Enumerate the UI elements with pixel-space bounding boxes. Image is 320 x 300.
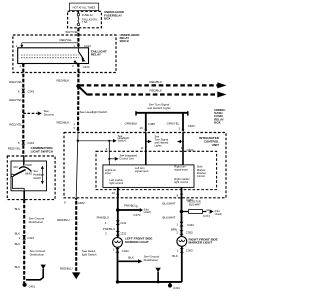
svg-text:RED/BLK: RED/BLK — [150, 80, 162, 84]
svg-text:FUSE 42: FUSE 42 — [82, 13, 93, 17]
svg-text:RED/BLK: RED/BLK — [150, 89, 162, 93]
wire ground distribution branch — [41, 265, 46, 269]
svg-text:C305: C305 — [186, 248, 193, 252]
lamp left front side marker — [113, 238, 123, 248]
svg-text:light control: light control — [174, 180, 188, 184]
svg-text:WHT/YEL: WHT/YEL — [65, 30, 78, 34]
wire right marker output — [181, 187, 183, 236]
resistor R1 — [189, 210, 203, 214]
under-hood fuse/relay box — [68, 11, 102, 28]
svg-text:Used): Used) — [215, 212, 222, 216]
svg-text:Security: Security — [44, 112, 55, 116]
svg-text:C483: C483 — [188, 124, 195, 128]
svg-text:C482: C482 — [78, 201, 85, 205]
node HOT AT ALL TIMES — [69, 3, 98, 11]
svg-text:LIGHT SWITCH: LIGHT SWITCH — [31, 150, 54, 154]
svg-text:GRN/BLK: GRN/BLK — [125, 121, 138, 125]
ground G401 — [23, 283, 27, 287]
wire RED/BLK down to ICU — [77, 86, 80, 130]
svg-text:Distribution: Distribution — [144, 258, 159, 262]
svg-text:MARKER LIGHT: MARKER LIGHT — [125, 240, 149, 244]
svg-text:C343: C343 — [27, 90, 34, 94]
node junction — [76, 84, 80, 88]
svg-text:light control: light control — [110, 181, 124, 185]
svg-text:C470: C470 — [133, 213, 140, 217]
svg-text:BLK: BLK — [15, 265, 21, 269]
wire left marker output — [117, 187, 119, 237]
svg-text:See Headlight Switch,: See Headlight Switch, — [80, 110, 108, 114]
svg-text:Switch: Switch — [33, 176, 41, 180]
svg-text:C322: C322 — [122, 249, 129, 253]
svg-text:MARKER LIGHT: MARKER LIGHT — [189, 241, 213, 245]
svg-text:UNIT: UNIT — [212, 143, 219, 147]
wire dashed bus upper to under-dash — [80, 84, 218, 86]
svg-text:Switch,: Switch, — [118, 139, 127, 143]
svg-text:Distribution: Distribution — [30, 252, 45, 256]
wire RED/YEL left column — [22, 64, 24, 157]
svg-text:Circuit: Circuit — [197, 174, 205, 178]
svg-text:PNK/BLU: PNK/BLU — [124, 204, 136, 208]
svg-text:BLU/WHT: BLU/WHT — [189, 203, 201, 207]
wire relay jumper pin1 to pin2 — [22, 43, 79, 48]
logic box — [103, 165, 194, 188]
fuse F42 — [77, 13, 97, 25]
svg-text:and Hazard Lights: and Hazard Lights — [147, 106, 171, 110]
wire fuse to relay pin1 WHT/YEL — [77, 28, 79, 48]
lamp right front side marker — [177, 237, 187, 247]
svg-text:G401: G401 — [29, 285, 36, 289]
svg-text:Headlight: Headlight — [33, 173, 44, 177]
wire BLK right marker ground — [181, 246, 183, 282]
svg-text:C486: C486 — [148, 122, 155, 126]
wire see security branch — [23, 112, 37, 114]
side marker flasher circuit box — [96, 151, 217, 189]
svg-text:PNK/BLU: PNK/BLU — [97, 215, 109, 219]
svg-text:input: input — [105, 171, 111, 175]
svg-text:HOT AT ALL TIMES: HOT AT ALL TIMES — [73, 5, 96, 9]
wire ground distribution incoming — [155, 268, 160, 272]
svg-text:RED/YEL: RED/YEL — [9, 98, 22, 102]
svg-text:RED/BLK: RED/BLK — [57, 120, 70, 124]
svg-text:C473: C473 — [203, 214, 210, 218]
wire switch output — [12, 177, 24, 191]
svg-text:BLU/WHT: BLU/WHT — [163, 202, 176, 206]
wire BLK left marker ground — [117, 247, 119, 282]
svg-text:See: See — [33, 169, 38, 173]
svg-text:Control Unit: Control Unit — [119, 156, 133, 160]
svg-text:RED/YEL: RED/YEL — [60, 38, 73, 42]
svg-text:C222: C222 — [83, 65, 90, 69]
svg-text:RELAY: RELAY — [91, 53, 102, 57]
svg-text:BLK: BLK — [15, 207, 21, 211]
relay contact — [77, 48, 79, 52]
svg-text:G301: G301 — [173, 286, 180, 290]
svg-text:BOX: BOX — [104, 16, 110, 20]
wire GRN/YEL C483 — [182, 113, 184, 130]
wire left turn inside ICU — [145, 132, 147, 165]
integrated control unit U2 — [64, 133, 226, 198]
wire right turn inside ICU — [182, 132, 184, 165]
svg-text:11: 11 — [140, 146, 143, 150]
svg-text:OFF: OFF — [13, 166, 18, 169]
svg-text:BLU/WHT: BLU/WHT — [163, 215, 176, 219]
svg-text:RED/YEL: RED/YEL — [9, 122, 22, 126]
svg-text:C305: C305 — [186, 231, 193, 235]
svg-text:PARK: PARK — [26, 164, 33, 167]
wire see headlight switch output C482 — [75, 201, 77, 273]
svg-text:signal input: signal input — [135, 169, 149, 173]
svg-text:BLK: BLK — [172, 254, 178, 258]
taillight relay U1 — [18, 48, 89, 64]
wire lights-on inside ICU — [76, 132, 78, 198]
node right not used branch — [180, 210, 184, 214]
svg-text:BLK: BLK — [15, 242, 21, 246]
svg-text:10: 10 — [206, 208, 210, 212]
wire GRN/BLK C486 — [145, 113, 147, 130]
svg-text:BOX: BOX — [214, 120, 220, 124]
svg-text:7.5A: 7.5A — [82, 20, 88, 24]
wire ground bus bottom — [118, 281, 182, 283]
svg-text:C416: C416 — [27, 236, 34, 240]
under-hood relay box B — [13, 35, 116, 73]
svg-text:Lights: Lights — [154, 143, 162, 147]
svg-text:BOX B: BOX B — [120, 39, 129, 43]
svg-text:RED/YEL: RED/YEL — [8, 147, 21, 151]
svg-text:10: 10 — [139, 126, 143, 130]
ground G301 — [169, 282, 171, 285]
svg-text:BLK: BLK — [128, 256, 134, 260]
svg-text:RED/BLU: RED/BLU — [60, 267, 73, 271]
svg-text:RED/BLK: RED/BLK — [57, 78, 70, 82]
svg-text:GRN/YEL: GRN/YEL — [167, 122, 180, 126]
switch lever — [23, 156, 25, 166]
wire fuse feed — [77, 11, 79, 14]
wire BLK ground left — [23, 191, 25, 200]
svg-text:C141: C141 — [120, 221, 127, 225]
svg-text:Used): Used) — [144, 210, 151, 214]
svg-text:BLK: BLK — [15, 232, 21, 236]
svg-text:10: 10 — [112, 191, 116, 195]
wire to flasher pin2 — [108, 141, 110, 165]
node left not used branch — [116, 208, 120, 212]
svg-text:RED/YEL: RED/YEL — [9, 80, 22, 84]
svg-text:light Switch: light Switch — [82, 252, 97, 256]
svg-text:HEAD: HEAD — [25, 173, 32, 176]
svg-text:PNK/BLU: PNK/BLU — [103, 227, 115, 231]
wire dashed bus lower to under-dash — [79, 86, 91, 94]
svg-text:C322: C322 — [120, 232, 127, 236]
svg-text:C416: C416 — [27, 141, 34, 145]
svg-text:signal input: signal input — [174, 168, 188, 172]
svg-text:RED/BLU: RED/BLU — [57, 218, 70, 222]
relay coil — [21, 54, 79, 56]
wire RED/BLK from relay pin3 — [77, 64, 79, 87]
svg-text:Distribution: Distribution — [29, 220, 44, 224]
svg-text:C342: C342 — [187, 223, 194, 227]
svg-text:C500: C500 — [187, 148, 194, 152]
